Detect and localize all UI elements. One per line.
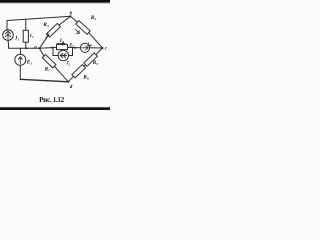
wire arm a-d upper — [40, 48, 44, 56]
wire a to r2 — [40, 46, 57, 49]
scan edge bar bottom — [0, 108, 110, 111]
svg-text:d: d — [70, 84, 73, 90]
wire top rail — [7, 16, 71, 20]
resistor r1 — [23, 30, 28, 42]
svg-text:R5: R5 — [92, 60, 99, 66]
svg-text:a: a — [34, 44, 37, 50]
resistor R4 — [76, 21, 90, 35]
wire arm a-d lower — [54, 66, 68, 82]
resistor R6 — [72, 65, 86, 78]
current source J1 — [3, 30, 14, 41]
resistor r2 — [57, 44, 68, 49]
wire E2 to c — [90, 47, 103, 49]
svg-text:R7: R7 — [44, 67, 51, 73]
current arrow I2 above r2 — [57, 43, 64, 45]
wire J2 left leg — [52, 48, 58, 56]
wire arm c-d upper — [96, 48, 103, 55]
svg-text:c: c — [105, 46, 108, 52]
resistor R3 — [47, 23, 61, 37]
current arrow on b-c arm — [76, 29, 80, 33]
wire arm c-d mid — [84, 65, 86, 67]
svg-text:R3: R3 — [42, 22, 49, 28]
wire left vertical — [6, 21, 8, 30]
node b — [70, 15, 72, 17]
wire arm a-b lower — [40, 35, 49, 48]
wire J2 right leg — [69, 48, 73, 56]
wire arm a-b upper — [59, 16, 71, 25]
svg-text:b: b — [70, 11, 73, 17]
svg-text:J2: J2 — [65, 62, 70, 67]
svg-text:r1: r1 — [30, 33, 34, 39]
svg-text:I2: I2 — [59, 38, 64, 44]
svg-text:E2: E2 — [68, 43, 74, 48]
svg-text:R4: R4 — [90, 15, 97, 21]
wire arm b-c upper — [71, 16, 78, 22]
svg-text:Рис. 1.12: Рис. 1.12 — [39, 96, 65, 104]
wire r2 to E2 — [68, 46, 81, 48]
wire r1 top — [25, 19, 27, 30]
svg-text:J1: J1 — [14, 36, 20, 42]
emf source E1 — [15, 54, 26, 65]
wire E1 bottom — [19, 65, 21, 79]
node c — [102, 47, 104, 49]
resistor R7 — [42, 54, 56, 67]
wire node row — [9, 47, 40, 49]
svg-text:R6: R6 — [82, 74, 89, 80]
node a — [39, 47, 41, 49]
emf source E2 — [80, 43, 89, 52]
current source J2 — [58, 50, 68, 60]
wire J1 bottom — [7, 40, 10, 48]
current arrow I6 near c — [88, 44, 91, 46]
wire E1 drop — [19, 48, 21, 54]
node dot E2 left — [74, 47, 76, 49]
current arrow on a-b arm — [46, 34, 49, 38]
resistor R5 — [84, 53, 98, 66]
scan edge bar top — [0, 0, 110, 3]
wire r1 bottom — [25, 42, 27, 48]
node dot r1 junction — [25, 47, 27, 49]
wire bottom rail — [20, 79, 68, 82]
svg-text:E1: E1 — [26, 60, 33, 66]
node d — [67, 81, 69, 83]
wire arm c-d lower — [68, 76, 73, 82]
node dot r2 left — [51, 47, 53, 49]
wire arm b-c lower — [89, 33, 103, 48]
